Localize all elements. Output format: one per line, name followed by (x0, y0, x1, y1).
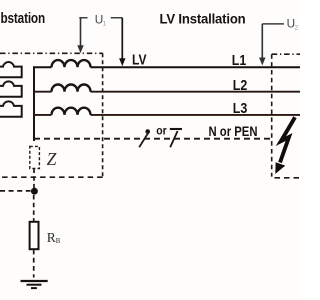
transformer primary winding W2 (0, 81, 22, 96)
substation boundary top edge (dash-dot) (0, 52, 103, 54)
wire Z box to junction (dashed) (33, 169, 35, 189)
substation boundary bottom edge (0, 176, 103, 178)
wire junction to RB (dashed) (33, 195, 35, 222)
transformer primary winding W1 (0, 62, 22, 77)
wire L1 line (33, 66, 300, 68)
svg-text:L1: L1 (232, 53, 247, 69)
secondary winding coil row 3 (52, 108, 91, 115)
LV Installation title text (160, 11, 246, 27)
transformer primary winding W3 (0, 101, 22, 116)
label Z (47, 149, 57, 169)
wire L2 line (33, 91, 300, 93)
substation title text "Substation" (cut at left edge) (1, 10, 46, 27)
secondary star-point bus wire (33, 66, 35, 141)
label or (156, 123, 167, 137)
earth conductor wire to left (dashed) (0, 190, 31, 192)
U2 measurement bracket (262, 23, 284, 25)
wire N or PEN conductor (dashed) (34, 138, 272, 140)
svg-text:or: or (156, 123, 167, 137)
wire RB to earth (dashed) (33, 250, 35, 278)
label N or PEN (209, 124, 258, 139)
switch S1 on neutral (blade with contact dot) (139, 129, 150, 147)
substation boundary right edge (102, 53, 104, 177)
label U2 (287, 17, 299, 32)
label U1 (95, 12, 107, 27)
removable link S2 on neutral (blade with T bar) (170, 129, 182, 147)
svg-text:N or PEN: N or PEN (209, 124, 258, 139)
svg-text:B: B (56, 238, 61, 245)
installation boundary left edge (dashed) (271, 54, 273, 176)
ground earth electrode symbol (21, 281, 48, 288)
junction node dot (31, 188, 38, 195)
U1 arrow to LV line (119, 18, 125, 66)
svg-text:2: 2 (295, 24, 299, 31)
earthing resistor RB (30, 222, 39, 249)
label L3 (233, 101, 248, 117)
secondary winding coil row 1 (52, 60, 91, 67)
svg-text:1: 1 (103, 21, 107, 28)
label L1 (232, 53, 247, 69)
secondary winding coil row 2 (52, 85, 91, 92)
U1 measurement bracket (79, 17, 122, 19)
svg-text:L3: L3 (233, 101, 248, 117)
label LV (132, 53, 147, 69)
svg-text:bstation: bstation (1, 10, 46, 27)
installation boundary bottom edge (dashed) (275, 177, 301, 179)
impedance Z dashed box (30, 146, 40, 168)
svg-text:Z: Z (47, 149, 57, 169)
wire L3 line (33, 114, 300, 116)
label RB (47, 230, 61, 245)
lightning impulse arrow (275, 117, 295, 174)
svg-text:LV: LV (132, 53, 147, 69)
U1 arrow to substation boundary (77, 18, 83, 54)
installation boundary top edge (dash-dot) (272, 53, 300, 55)
label L2 (233, 78, 248, 94)
svg-text:R: R (47, 230, 56, 245)
svg-text:LV Installation: LV Installation (160, 11, 246, 27)
svg-text:L2: L2 (233, 78, 248, 94)
U2 arrow to L1 line (259, 24, 265, 66)
